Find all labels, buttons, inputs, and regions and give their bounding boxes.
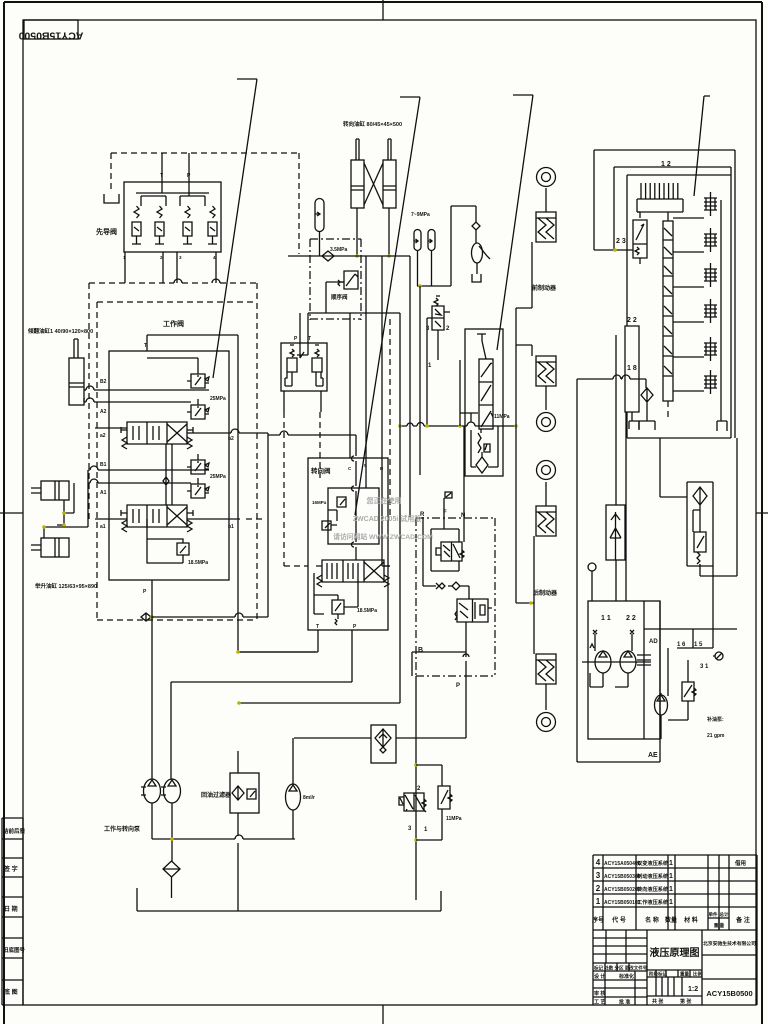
svg-text:1: 1: [428, 363, 432, 369]
svg-text:3: 3: [179, 255, 182, 260]
svg-text:标记 处数 分区 更改文件号: 标记 处数 分区 更改文件号: [593, 965, 648, 972]
svg-text:比例: 比例: [693, 971, 702, 978]
svg-text:工 艺: 工 艺: [594, 999, 605, 1006]
svg-text:名 称: 名 称: [645, 916, 659, 924]
svg-text:制动液压系统: 制动液压系统: [637, 872, 669, 880]
svg-text:1: 1: [669, 873, 673, 880]
svg-text:重量: 重量: [680, 971, 689, 978]
svg-text:ACY15A050400: ACY15A050400: [604, 861, 641, 867]
svg-text:1: 1: [669, 860, 673, 867]
svg-text:液压原理图: 液压原理图: [650, 946, 700, 959]
svg-text:16MPa: 16MPa: [312, 500, 327, 505]
svg-text:1: 1: [669, 899, 673, 906]
svg-text:2: 2: [596, 884, 601, 893]
svg-text:ACY15B050300: ACY15B050300: [604, 874, 641, 880]
svg-text:您正在使用: 您正在使用: [367, 496, 402, 505]
svg-text:先导阀: 先导阀: [96, 227, 117, 236]
svg-text:3: 3: [596, 871, 601, 880]
svg-text:北京安驰生技术有限公司: 北京安驰生技术有限公司: [703, 940, 756, 947]
svg-text:a1: a1: [100, 524, 106, 530]
svg-text:序号: 序号: [591, 916, 604, 924]
svg-text:ACY15B050100: ACY15B050100: [604, 900, 641, 906]
svg-text:借用: 借用: [734, 859, 746, 867]
svg-text:工作液压系统: 工作液压系统: [637, 898, 669, 906]
svg-text:ZWCAD 2005i 试用版: ZWCAD 2005i 试用版: [353, 514, 421, 523]
svg-text:批 准: 批 准: [619, 999, 630, 1006]
svg-text:转向油缸 80/45×45×500: 转向油缸 80/45×45×500: [343, 120, 402, 128]
svg-text:11MPa: 11MPa: [494, 414, 510, 420]
svg-text:3: 3: [408, 826, 412, 832]
svg-text:A2: A2: [100, 409, 107, 415]
svg-text:1: 1: [596, 897, 601, 906]
svg-text:B2: B2: [100, 379, 107, 385]
svg-text:3 1: 3 1: [700, 664, 709, 670]
svg-text:1: 1: [669, 886, 673, 893]
svg-text:1:2: 1:2: [688, 986, 698, 993]
svg-text:后制动器: 后制动器: [533, 589, 558, 597]
svg-text:总计: 总计: [720, 911, 729, 918]
svg-text:签 字: 签 字: [3, 865, 18, 873]
svg-text:C: C: [348, 466, 352, 471]
svg-text:B1: B1: [100, 462, 107, 468]
svg-text:P: P: [143, 589, 147, 595]
svg-text:2 3: 2 3: [616, 238, 626, 245]
svg-text:25MPa: 25MPa: [210, 474, 226, 480]
svg-text:工作与转向泵: 工作与转向泵: [104, 825, 141, 833]
svg-text:1: 1: [424, 827, 428, 833]
svg-text:2: 2: [417, 786, 421, 792]
svg-text:AD: AD: [649, 639, 658, 645]
svg-text:回油过滤器: 回油过滤器: [201, 791, 232, 799]
svg-text:标准化: 标准化: [618, 973, 634, 980]
svg-text:审 核: 审 核: [594, 990, 605, 997]
svg-text:备 注: 备 注: [735, 916, 750, 924]
svg-text:单件: 单件: [709, 911, 718, 918]
svg-text:1 8: 1 8: [627, 365, 637, 372]
svg-text:日 期: 日 期: [4, 905, 18, 913]
svg-text:第 张: 第 张: [680, 998, 692, 1005]
svg-text:11MPa: 11MPa: [446, 816, 462, 822]
svg-text:工作阀: 工作阀: [163, 319, 184, 328]
svg-text:4: 4: [596, 858, 601, 867]
svg-text:3: 3: [426, 326, 430, 332]
svg-text:2 2: 2 2: [627, 317, 637, 324]
svg-text:底 图: 底 图: [4, 988, 18, 996]
svg-text:举升油缸 125/63×95×890: 举升油缸 125/63×95×890: [34, 582, 97, 590]
svg-text:P: P: [294, 336, 298, 342]
svg-text:25MPa: 25MPa: [210, 396, 226, 402]
svg-text:转向液压系统: 转向液压系统: [637, 885, 669, 893]
svg-text:1 1: 1 1: [601, 615, 611, 622]
svg-text:2: 2: [446, 326, 450, 332]
svg-text:2 2: 2 2: [626, 615, 636, 622]
svg-text:1 5: 1 5: [694, 642, 703, 648]
svg-text:N: N: [461, 513, 465, 519]
svg-text:补油泵:: 补油泵:: [706, 716, 724, 723]
svg-text:A1: A1: [100, 490, 107, 496]
svg-text:倾翻油缸1 40/90×120×800: 倾翻油缸1 40/90×120×800: [27, 327, 93, 335]
svg-text:18.5MPa: 18.5MPa: [188, 560, 208, 566]
svg-text:3.5MPa: 3.5MPa: [330, 247, 347, 253]
svg-text:b2: b2: [228, 436, 234, 442]
svg-text:请访问网站 WWW.ZWCAD.COM: 请访问网站 WWW.ZWCAD.COM: [333, 532, 433, 541]
svg-text:材 料: 材 料: [683, 916, 698, 924]
svg-text:21 gpm: 21 gpm: [707, 733, 725, 739]
svg-text:结前后质: 结前后质: [3, 827, 26, 835]
svg-text:1 2: 1 2: [661, 161, 671, 168]
svg-text:7~9MPa: 7~9MPa: [411, 212, 430, 218]
svg-text:共 张: 共 张: [652, 998, 664, 1005]
svg-text:设 计: 设 计: [594, 973, 605, 980]
svg-text:顺序阀: 顺序阀: [331, 293, 348, 301]
svg-text:8ml/r: 8ml/r: [303, 795, 315, 801]
svg-text:18.5MPa: 18.5MPa: [357, 608, 377, 614]
svg-text:b1: b1: [228, 524, 234, 530]
svg-text:数量: 数量: [665, 916, 677, 924]
svg-text:B: B: [418, 647, 423, 654]
svg-text:重 量: 重 量: [714, 922, 725, 929]
svg-text:代 号: 代 号: [611, 916, 626, 924]
svg-text:AE: AE: [648, 752, 658, 759]
svg-text:ACY15B050200: ACY15B050200: [604, 887, 641, 893]
svg-text:P: P: [353, 624, 357, 630]
svg-text:ACY15B0500: ACY15B0500: [706, 989, 752, 998]
svg-text:阶段标记: 阶段标记: [649, 971, 667, 978]
svg-text:a2: a2: [100, 433, 106, 439]
svg-text:P: P: [456, 683, 460, 689]
svg-text:ACY15B0500: ACY15B0500: [18, 30, 83, 42]
svg-text:1 6: 1 6: [677, 642, 686, 648]
svg-text:转向阀: 转向阀: [311, 466, 331, 475]
svg-text:T: T: [316, 624, 319, 630]
svg-text:双变液压系统: 双变液压系统: [637, 859, 669, 867]
svg-text:旧底图号: 旧底图号: [3, 946, 26, 954]
svg-text:前制动器: 前制动器: [532, 284, 557, 292]
